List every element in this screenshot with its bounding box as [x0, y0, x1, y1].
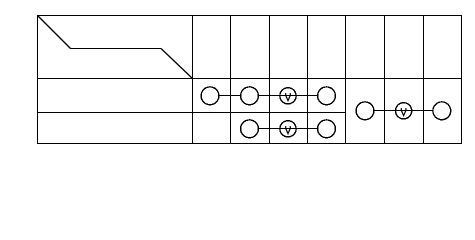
lamp L2: [241, 87, 259, 105]
lamp L7: [433, 102, 451, 120]
lamp L4: [241, 120, 259, 138]
column line 7: [423, 15, 425, 144]
wire bottom row: [250, 128, 327, 130]
row separator: [37, 112, 346, 114]
table grid: [37, 15, 462, 144]
lamp L5: [318, 120, 336, 138]
zigzag polyline: [38, 16, 193, 79]
voltmeter V1: [280, 88, 296, 104]
wire top row: [210, 95, 327, 97]
column line 2: [230, 15, 232, 144]
top rail: [37, 15, 462, 17]
voltmeter V2: [280, 121, 296, 137]
lamp L3: [318, 87, 336, 105]
lamp L1: [201, 87, 219, 105]
column line 5: [345, 15, 347, 144]
bottom rail: [37, 143, 462, 145]
wire right row: [365, 110, 442, 112]
left edge: [37, 15, 39, 144]
column line 3: [269, 15, 271, 144]
column line 1: [192, 15, 194, 144]
column line 6: [384, 15, 386, 144]
column line 4: [307, 15, 309, 144]
lamp L6: [356, 102, 374, 120]
mid rail: [37, 78, 462, 80]
right edge: [461, 15, 463, 144]
voltmeter V3: [396, 103, 412, 119]
